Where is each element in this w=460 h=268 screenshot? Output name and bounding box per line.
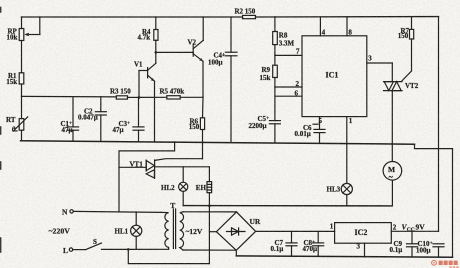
voltage regulator IC2 box xyxy=(335,223,392,244)
label C4 100u xyxy=(208,51,225,66)
label R7 150 xyxy=(398,27,410,40)
capacitor C6 xyxy=(314,129,325,142)
label R6 150 xyxy=(189,117,200,130)
capacitor C2 xyxy=(95,97,106,142)
label R8 3.3M xyxy=(279,31,295,47)
lamp HL1 xyxy=(131,212,142,250)
switch S xyxy=(73,243,129,250)
label M inside motor xyxy=(388,165,395,182)
motor M xyxy=(383,144,402,206)
wire right edge ground vertical xyxy=(452,149,454,258)
resistor R2 xyxy=(243,15,256,18)
label C2 0.047u xyxy=(78,107,98,121)
transistor V1 xyxy=(139,63,156,97)
capacitor C9 xyxy=(407,231,418,257)
wire RP to R1 xyxy=(21,41,23,73)
wire switch node to transformer xyxy=(128,248,168,250)
label C3+ 47u xyxy=(113,120,131,134)
transformer T core xyxy=(173,209,175,249)
transformer T secondary winding xyxy=(180,212,184,250)
junction dot EH bottom xyxy=(208,204,211,207)
wire pin5 xyxy=(319,117,321,130)
wire right edge vcc vertical xyxy=(438,17,440,232)
label RP 10k xyxy=(7,28,18,42)
wire ground rail right step xyxy=(415,144,453,148)
label RT theta xyxy=(6,116,16,133)
op-amp U1 IC1 box xyxy=(302,36,367,117)
triac VT1 xyxy=(146,160,154,178)
wire V2 collector to top rail xyxy=(202,17,204,40)
resistor R9 xyxy=(273,65,278,120)
capacitor C7 xyxy=(286,231,297,256)
capacitor C1 xyxy=(67,97,78,142)
scan edge artifacts xyxy=(0,8,2,253)
wire N line xyxy=(73,211,161,212)
wire R5 to node B xyxy=(180,96,203,98)
wire node A to R5 xyxy=(139,96,167,98)
label C7 0.1u xyxy=(271,239,284,253)
label C8+ 470u xyxy=(303,239,318,253)
watermark xyxy=(432,260,459,268)
wire R1 to RT xyxy=(21,84,23,119)
wire ground rail xyxy=(21,141,415,144)
wire IC2 pin3 to ground xyxy=(364,243,366,257)
node C junction dot xyxy=(155,51,158,54)
label C9 0.1u xyxy=(390,240,403,254)
wire RT to ground rail xyxy=(21,130,23,141)
resistor R6 xyxy=(200,97,204,158)
wire bridge left to return xyxy=(209,231,216,233)
junction dot switch node xyxy=(127,248,130,251)
terminal N xyxy=(70,210,73,213)
resistor R8 xyxy=(273,17,278,65)
wire EH return vertical xyxy=(208,206,210,264)
wire top supply rail right section xyxy=(256,16,439,18)
wire bridge bottom to ground xyxy=(235,250,237,256)
pin number 5 with tick xyxy=(313,117,323,125)
label R1 15k xyxy=(6,72,17,86)
wire VT1 left terminal xyxy=(119,166,146,168)
terminal L xyxy=(69,248,72,251)
wire VT1 right terminal to lamps xyxy=(155,166,210,168)
label C10+ 100u xyxy=(416,240,433,254)
wire pin8 xyxy=(346,17,348,36)
triac VT2 xyxy=(384,82,403,144)
resistor R5 xyxy=(167,96,180,99)
capacitor C8 xyxy=(313,231,324,256)
capacitor C5 xyxy=(269,121,280,143)
label C6 0.01u xyxy=(295,124,313,138)
label R4 4.7k xyxy=(138,28,152,42)
heater EH xyxy=(207,167,212,206)
wire secondary top to bridge xyxy=(183,211,237,213)
wire IC2 output Vcc xyxy=(391,230,438,232)
wire secondary bottom to bridge xyxy=(183,249,236,251)
thermistor RT xyxy=(13,117,27,131)
wire pin1 to ground rail xyxy=(346,117,348,144)
wire pin7 xyxy=(275,54,302,56)
capacitor C10 xyxy=(433,244,444,257)
wire lamp bottom bus y=205.7 xyxy=(183,205,391,207)
node A junction dot xyxy=(138,96,141,99)
lamp HL3 xyxy=(341,144,352,206)
wire bottom loop to EH return xyxy=(128,249,209,263)
lamp HL2 xyxy=(179,167,188,206)
label C5+ 2200u xyxy=(249,115,270,130)
wire base bus y=96.5 xyxy=(22,95,117,98)
capacitor C4 xyxy=(225,17,237,142)
wire V1 collector to node C xyxy=(155,52,157,63)
wire V1 emitter to ground rail xyxy=(154,81,156,141)
wire pin2 xyxy=(275,86,302,88)
wire bottom ground rail xyxy=(236,256,452,257)
label R9 15k xyxy=(260,66,271,82)
resistor R4 xyxy=(154,17,158,52)
potentiometer RP xyxy=(19,17,40,41)
label Vcc 9V xyxy=(402,222,426,233)
resistor R3 xyxy=(116,96,127,99)
resistor R1 xyxy=(19,73,24,84)
wire V2 emitter to node B xyxy=(202,61,204,97)
wire pin4 xyxy=(319,17,321,36)
capacitor C3 xyxy=(133,97,144,141)
bridge rectifier UR xyxy=(216,212,255,250)
wire top supply rail left section xyxy=(22,16,243,18)
wire pin3 output xyxy=(367,63,393,82)
wire VT1 gate xyxy=(155,159,203,161)
resistor R7 xyxy=(402,17,414,82)
wire R3 to node A xyxy=(128,96,140,98)
wire bridge output to IC2 xyxy=(256,230,335,232)
wire node C to V2 base xyxy=(156,51,193,53)
transformer T primary winding xyxy=(161,212,169,249)
wire pin6 xyxy=(275,95,302,97)
label C1+ 47u xyxy=(61,120,73,134)
wire step down to VT1 branch xyxy=(119,142,175,212)
transistor V2 xyxy=(193,40,203,61)
